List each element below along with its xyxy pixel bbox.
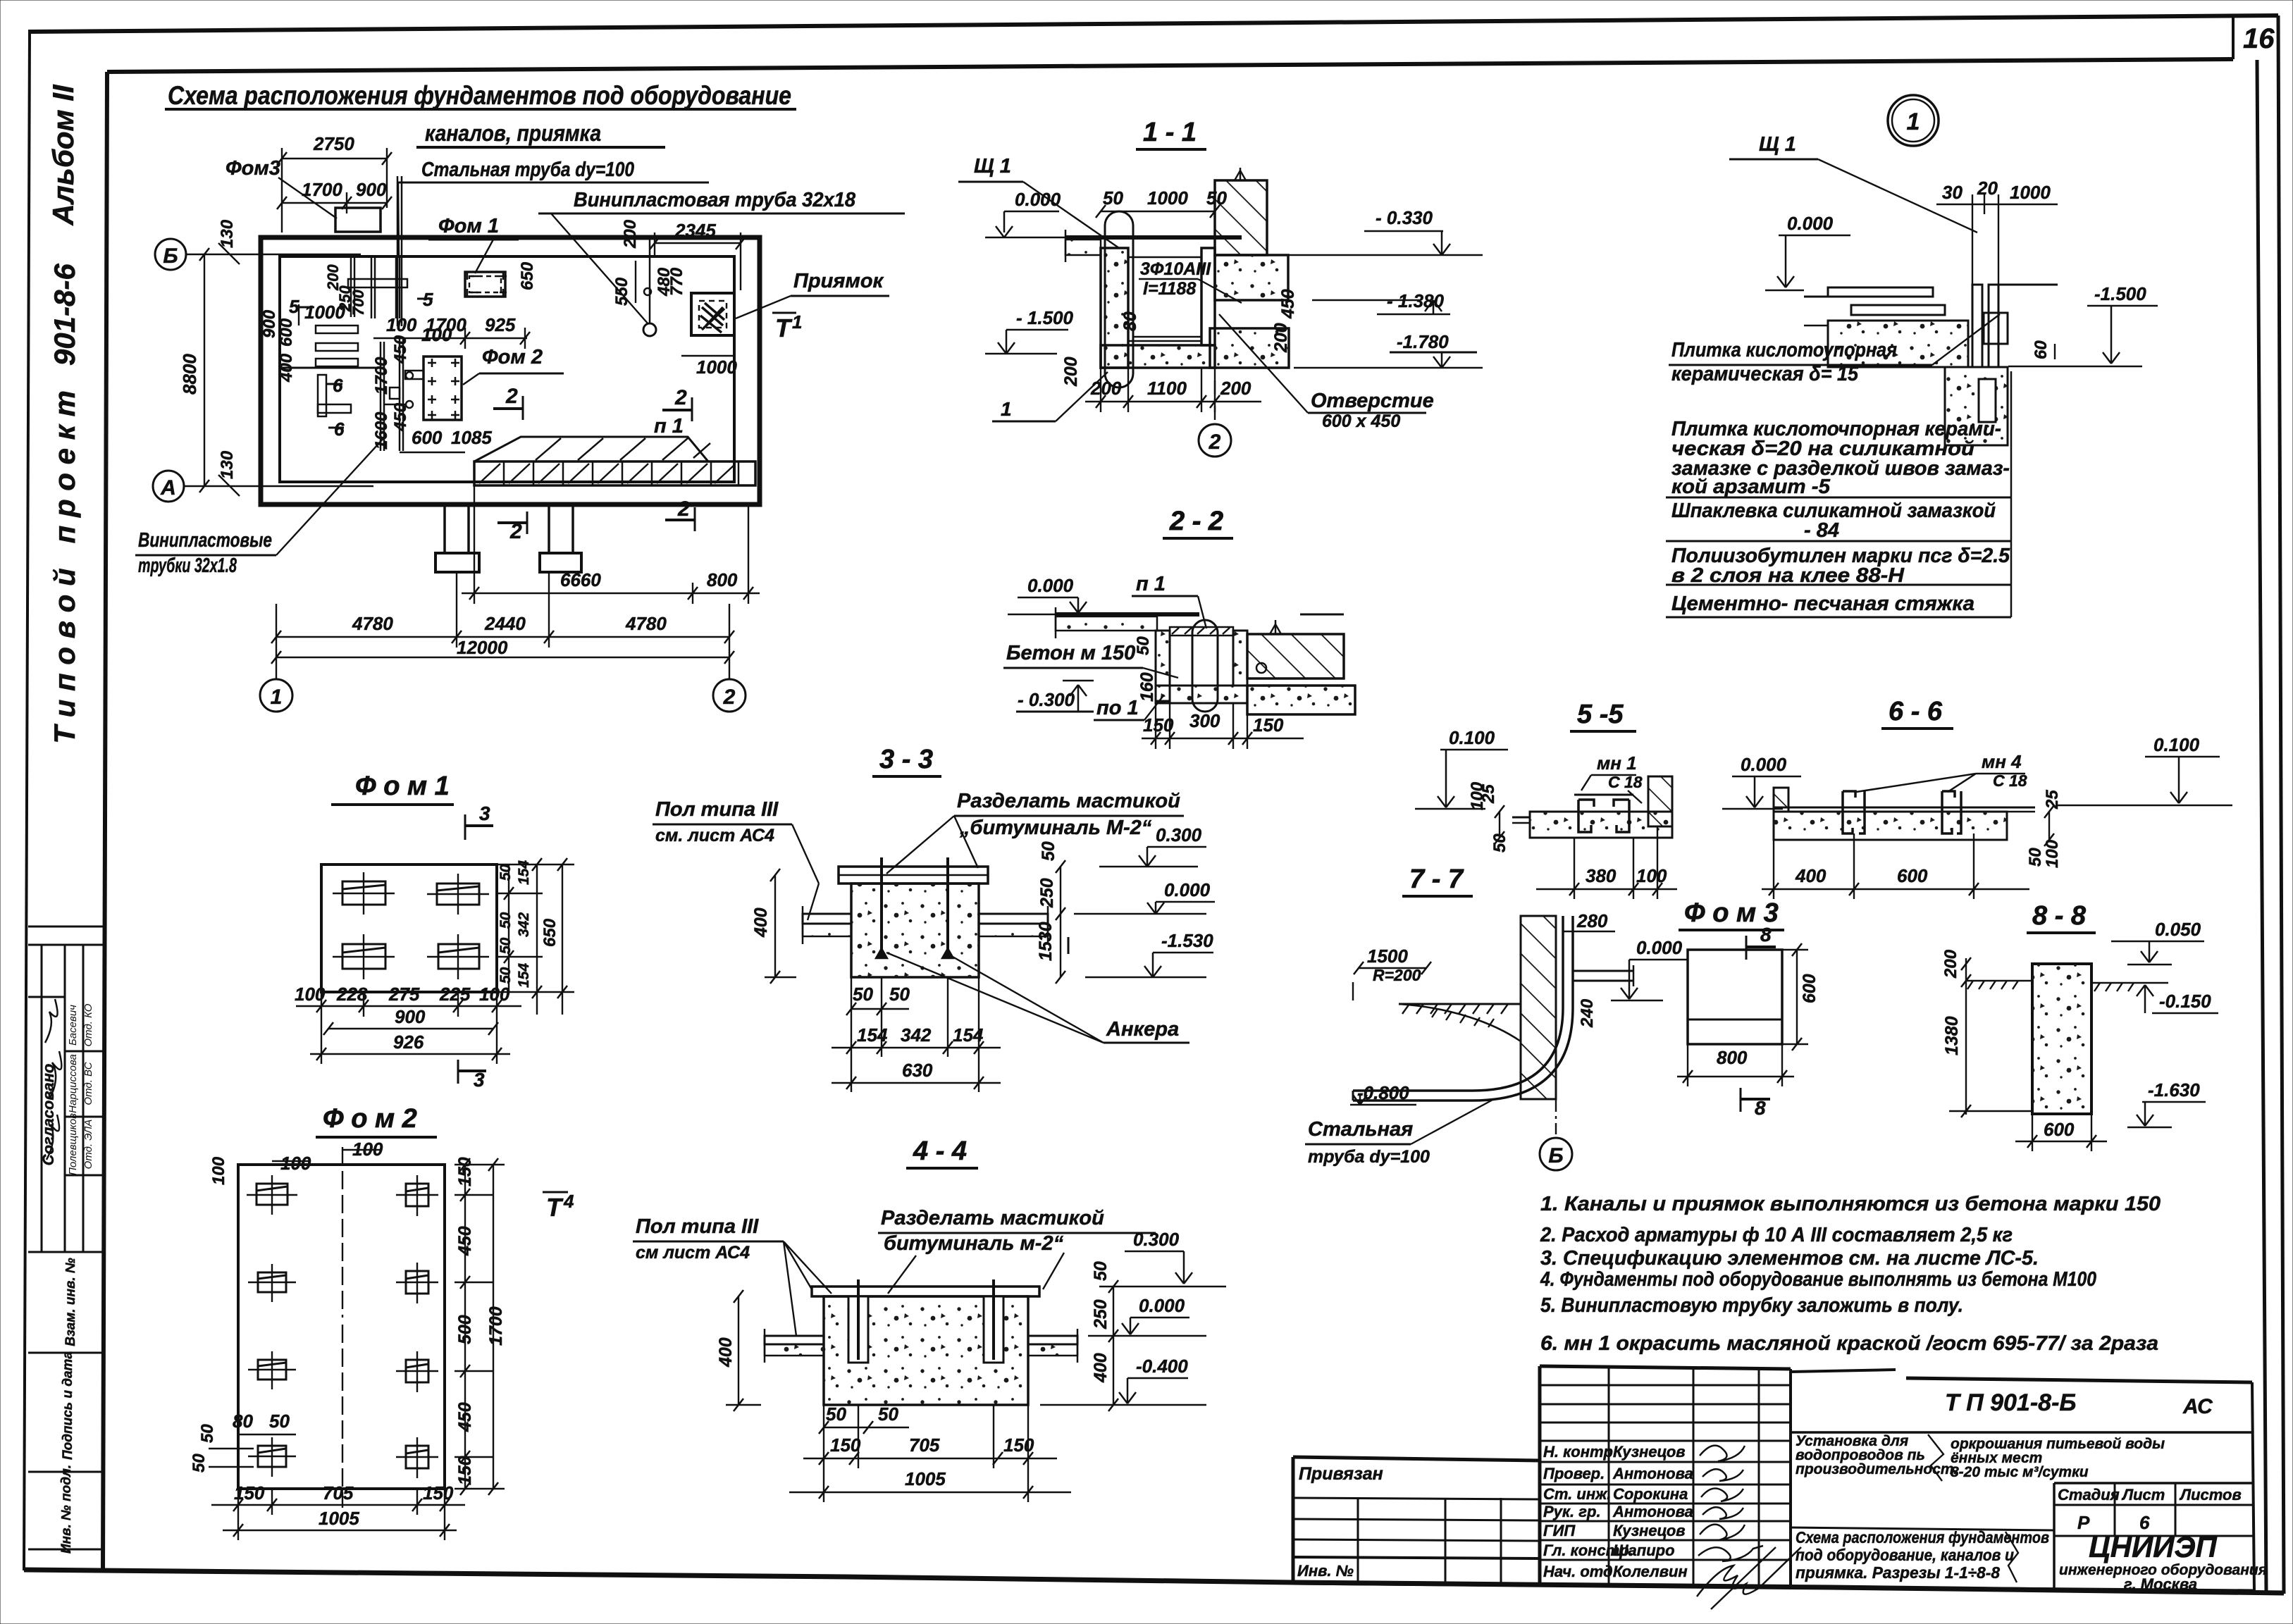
svg-text:700: 700	[350, 290, 367, 316]
pit pryamok	[691, 293, 734, 335]
svg-text:Т и п о в о й п р о е к т: Т и п о в о й п р о е к т 901-8-6	[48, 264, 81, 744]
floor slab left	[1065, 235, 1242, 240]
svg-text:6 - 6: 6 - 6	[1889, 697, 1943, 726]
svg-text:1: 1	[792, 311, 802, 333]
slope line	[1399, 1004, 1521, 1041]
svg-text:мн 1: мн 1	[1597, 752, 1637, 774]
fom1 rect in plan	[465, 272, 505, 297]
ground left	[1399, 1003, 1521, 1005]
svg-text:-1.530: -1.530	[1161, 930, 1213, 951]
svg-text:200: 200	[1271, 323, 1291, 353]
right part	[1791, 1370, 1896, 1372]
svg-text:1700: 1700	[486, 1306, 506, 1346]
svg-text:8-20 тыс м³/сутки: 8-20 тыс м³/сутки	[1951, 1464, 2089, 1480]
SECTION 1-1	[958, 118, 1483, 457]
svg-text:- 84: - 84	[1804, 519, 1839, 542]
floor slab left	[765, 1336, 824, 1344]
svg-text:Стальная труба dy=100: Стальная труба dy=100	[421, 159, 634, 181]
floor plates	[1828, 287, 1933, 297]
Sch1 capsule	[1105, 211, 1133, 388]
floor slab left	[803, 914, 851, 924]
svg-text:600: 600	[2044, 1119, 2075, 1140]
svg-text:Кузнецов: Кузнецов	[1613, 1522, 1686, 1539]
steel pipe in wall	[397, 176, 399, 326]
SECTION 6-6	[1722, 697, 2232, 899]
svg-text:Фом 2: Фом 2	[482, 346, 543, 368]
bottom dims 200 1100 200	[1085, 401, 1261, 402]
svg-text:1000: 1000	[1147, 187, 1188, 209]
svg-text:Отверстие: Отверстие	[1311, 390, 1434, 412]
svg-text:50: 50	[2026, 848, 2045, 867]
svg-text:3. Спецификацию элементов: 3. Спецификацию элементов см. на листе Л…	[1540, 1247, 2039, 1270]
bottom dim chain	[296, 1005, 521, 1007]
svg-text:1530: 1530	[1036, 922, 1056, 961]
channels	[1843, 791, 1865, 833]
channel p1 flap	[474, 437, 708, 461]
main title	[165, 81, 796, 147]
svg-text:1. Каналы и приямок вып: 1. Каналы и приямок выполняются из бетон…	[1540, 1193, 2161, 1215]
svg-text:1: 1	[271, 686, 283, 709]
svg-text:Инв. №: Инв. №	[1297, 1562, 1354, 1580]
svg-text:200: 200	[621, 219, 640, 249]
hatch left end	[1774, 788, 1788, 812]
svg-text:150: 150	[830, 1434, 861, 1456]
svg-text:Колелвин: Колелвин	[1613, 1563, 1688, 1580]
svg-text:0.000: 0.000	[1636, 937, 1683, 958]
svg-text:130: 130	[218, 219, 237, 248]
svg-text:400: 400	[751, 907, 771, 938]
SECTION 8-8	[1941, 901, 2218, 1151]
dim 12000	[276, 657, 729, 658]
svg-text:Анкера: Анкера	[1106, 1018, 1179, 1041]
project name	[1791, 1527, 2054, 1530]
svg-text:280: 280	[1576, 910, 1608, 931]
svg-text:АС: АС	[2182, 1395, 2213, 1418]
svg-text:п 1: п 1	[654, 415, 684, 438]
floor slab right	[979, 914, 1048, 924]
anchors right col	[396, 1175, 438, 1478]
svg-text:Шапиро: Шапиро	[1613, 1542, 1675, 1559]
dims 150 300 150	[1142, 738, 1304, 739]
plate rect	[321, 864, 497, 992]
svg-text:- 0.330: - 0.330	[1376, 207, 1433, 228]
svg-text:5. Винипластовую трубку: 5. Винипластовую трубку заложить в полу.	[1540, 1294, 1963, 1317]
svg-text:Стадия: Стадия	[2058, 1486, 2120, 1504]
vent pipe circle	[649, 237, 651, 324]
svg-text:50: 50	[878, 1403, 898, 1425]
svg-text:1085: 1085	[451, 427, 492, 448]
svg-text:50: 50	[497, 937, 514, 954]
svg-text:342: 342	[516, 912, 532, 937]
svg-text:342: 342	[901, 1024, 932, 1046]
svg-text:Сорокина: Сорокина	[1613, 1485, 1688, 1503]
horizontal line across room	[280, 367, 384, 369]
svg-text:0.300: 0.300	[1133, 1229, 1180, 1250]
svg-text:2 - 2: 2 - 2	[1169, 507, 1223, 536]
svg-text:160: 160	[1137, 672, 1157, 702]
svg-text:5 -5: 5 -5	[1577, 700, 1624, 729]
svg-text:по 1: по 1	[1096, 697, 1139, 719]
svg-text:7 - 7: 7 - 7	[1409, 864, 1464, 894]
svg-text:200: 200	[1941, 949, 1960, 979]
FOM 3 detail	[1677, 898, 1819, 1119]
interior top-left cluster	[350, 256, 352, 317]
svg-text:С 18: С 18	[1993, 771, 2027, 790]
svg-text:Согласовано: Согласовано	[39, 1064, 57, 1166]
svg-text:600: 600	[412, 427, 443, 448]
svg-text:50: 50	[497, 864, 514, 881]
svg-text:1380: 1380	[1942, 1016, 1962, 1055]
SECTION 7-7	[1305, 864, 1687, 1170]
svg-text:50: 50	[1134, 636, 1153, 655]
svg-text:Отд. ЭЛА: Отд. ЭЛА	[82, 1120, 94, 1170]
svg-text:Отд. ВС: Отд. ВС	[82, 1062, 94, 1105]
svg-text:600: 600	[277, 318, 296, 347]
dim 2345	[655, 242, 741, 244]
svg-text:550: 550	[612, 277, 631, 306]
svg-text:Н. контр.: Н. контр.	[1543, 1443, 1617, 1461]
bottom dims	[1762, 888, 2029, 890]
fom2 rect	[424, 357, 462, 420]
svg-text:Винипластовая труба 32х18: Винипластовая труба 32х18	[574, 189, 856, 211]
svg-text:300: 300	[1189, 710, 1220, 731]
svg-text:- 1.500: - 1.500	[1016, 307, 1073, 328]
svg-text:2345: 2345	[674, 220, 716, 241]
building inner wall	[280, 256, 734, 482]
slab	[1530, 812, 1672, 838]
axis circle 1	[260, 679, 292, 712]
svg-text:2: 2	[723, 686, 736, 709]
svg-text:4: 4	[563, 1191, 574, 1212]
axis circle 2	[713, 679, 746, 712]
svg-text:в 2 слоя на клее 88-: в 2 слоя на клее 88-Н	[1671, 564, 1905, 587]
SECTION 5-5	[1415, 700, 1677, 899]
svg-text:Ст. инж.: Ст. инж.	[1543, 1485, 1611, 1503]
svg-text:Т П 901-8-Б: Т П 901-8-Б	[1945, 1389, 2076, 1416]
SECTION 2-2	[1163, 507, 1233, 538]
svg-text:- 0.300: - 0.300	[1018, 689, 1075, 710]
svg-text:600: 600	[1800, 974, 1819, 1003]
dims	[1796, 950, 1798, 1044]
svg-text:0.000: 0.000	[1741, 754, 1787, 775]
fom3 rectangle	[335, 208, 381, 232]
svg-text:500: 500	[455, 1315, 475, 1344]
svg-text:0.100: 0.100	[1449, 727, 1495, 748]
svg-text:Разделать мастикой: Разделать мастикой	[957, 790, 1180, 812]
PLAN	[135, 133, 905, 712]
lid capsule	[1192, 620, 1218, 712]
svg-text:-1.500: -1.500	[2094, 283, 2146, 304]
svg-text:1 - 1: 1 - 1	[1143, 118, 1197, 147]
channel lining	[1128, 248, 1201, 341]
bolt slots	[848, 1296, 868, 1363]
svg-text:50: 50	[497, 967, 514, 984]
svg-text:2: 2	[677, 497, 690, 521]
top plate	[812, 1287, 1039, 1296]
dim 2750	[282, 158, 387, 159]
wall below	[1945, 367, 2008, 445]
svg-text:400: 400	[1795, 865, 1827, 886]
axis line B	[186, 254, 361, 255]
T element	[318, 375, 326, 416]
svg-text:60: 60	[2032, 340, 2051, 359]
svg-text:Фом3: Фом3	[225, 157, 280, 180]
svg-text:Фом 1: Фом 1	[438, 215, 499, 237]
svg-text:20: 20	[1977, 178, 1998, 199]
svg-text:0.000: 0.000	[1027, 575, 1074, 596]
svg-text:450: 450	[391, 402, 410, 432]
svg-text:Басевич: Басевич	[67, 1005, 79, 1046]
svg-text:2: 2	[674, 386, 687, 409]
svg-text:Т: Т	[775, 314, 793, 342]
slab	[1774, 812, 2007, 840]
svg-text:900: 900	[356, 179, 387, 200]
svg-text:380: 380	[1586, 865, 1617, 886]
left rotated stamp table	[28, 926, 103, 1554]
dim 400 left	[774, 875, 776, 977]
svg-text:925: 925	[485, 314, 516, 335]
svg-text:0.000: 0.000	[1164, 879, 1211, 900]
channel body	[1156, 631, 1170, 701]
right dim chain	[464, 1165, 466, 1489]
svg-text:600: 600	[1897, 865, 1928, 886]
vinyl tube channels	[380, 342, 382, 451]
svg-text:900: 900	[395, 1006, 426, 1027]
foundation leg 1	[443, 504, 446, 553]
svg-text:50: 50	[497, 912, 514, 929]
interior bars left	[316, 326, 358, 333]
svg-text:2440: 2440	[484, 613, 526, 634]
hatched block	[1648, 776, 1672, 826]
svg-text:1000: 1000	[304, 302, 345, 323]
right vertical dim chain	[1060, 867, 1061, 977]
svg-text:4. Фундаменты под оборудо: 4. Фундаменты под оборудование выполнять…	[1540, 1268, 2096, 1291]
svg-text:Полевщиков: Полевщиков	[67, 1113, 79, 1175]
svg-text:1000: 1000	[2010, 182, 2051, 203]
svg-text:0.000: 0.000	[1015, 189, 1061, 210]
svg-text:Кузнецов: Кузнецов	[1613, 1443, 1686, 1461]
lower step	[1210, 328, 1289, 368]
svg-text:R=200: R=200	[1373, 966, 1421, 984]
svg-text:ЦНИИЭП: ЦНИИЭП	[2089, 1530, 2218, 1563]
svg-text:3: 3	[479, 802, 490, 824]
svg-text:50: 50	[269, 1411, 290, 1432]
svg-text:100: 100	[479, 984, 510, 1005]
svg-text:Т: Т	[546, 1193, 564, 1222]
svg-text:битуминаль м-2“: битуминаль м-2“	[884, 1232, 1064, 1255]
svg-text:Ф о м 2: Ф о м 2	[323, 1104, 417, 1134]
svg-text:3Ф10АIII: 3Ф10АIII	[1140, 259, 1211, 279]
svg-text:450: 450	[455, 1402, 475, 1432]
dimension slash ticks	[199, 152, 2096, 1537]
FOM 2 detail	[190, 1104, 574, 1540]
svg-text:Стальная: Стальная	[1308, 1118, 1413, 1141]
svg-text:см лист АС4: см лист АС4	[636, 1243, 750, 1263]
svg-text:Б: Б	[1548, 1144, 1563, 1167]
axis circle B	[1555, 1099, 1557, 1134]
channel bottom slab	[1101, 345, 1215, 368]
svg-text:Бетон м 150: Бетон м 150	[1006, 642, 1135, 664]
svg-text:16: 16	[2243, 23, 2275, 54]
concrete block	[851, 884, 979, 977]
bottom dims	[211, 1504, 465, 1506]
svg-text:Альбом II: Альбом II	[47, 84, 80, 225]
axis line A	[184, 485, 373, 487]
svg-text:6: 6	[334, 419, 345, 440]
svg-text:приямка. Разрезы 1-1÷8-8: приямка. Разрезы 1-1÷8-8	[1796, 1563, 2000, 1582]
svg-text:200: 200	[1061, 357, 1081, 387]
svg-text:кой арзамит -5: кой арзамит -5	[1671, 476, 1831, 498]
svg-text:1005: 1005	[319, 1508, 359, 1529]
dim 1700 900	[282, 202, 387, 204]
svg-text:Антонова: Антонова	[1612, 1503, 1693, 1520]
svg-text:8: 8	[1760, 924, 1772, 946]
pipe horiz right	[1573, 970, 1633, 972]
svg-text:8800: 8800	[179, 354, 200, 395]
svg-text:-1.630: -1.630	[2148, 1079, 2200, 1101]
svg-text:250: 250	[1091, 1299, 1111, 1329]
svg-text:1500: 1500	[1367, 946, 1408, 967]
svg-text:4780: 4780	[352, 613, 393, 634]
anchor plates	[333, 872, 489, 979]
DETAIL 1 floor layers	[1666, 95, 2158, 617]
svg-text:3 - 3: 3 - 3	[879, 745, 933, 774]
svg-text:Нарциссова: Нарциссова	[67, 1054, 79, 1113]
svg-text:150: 150	[455, 1157, 475, 1186]
wall plates	[1972, 285, 1982, 367]
signatures	[1697, 1446, 1801, 1609]
svg-text:Щ 1: Щ 1	[974, 155, 1011, 178]
svg-text:30: 30	[1942, 182, 1963, 203]
brick wall right	[1247, 634, 1344, 678]
svg-text:1700: 1700	[302, 179, 342, 200]
left sub-table	[1293, 1457, 1540, 1461]
channel profile	[1578, 800, 1629, 832]
channel right wall	[1201, 248, 1215, 345]
svg-text:926: 926	[393, 1031, 424, 1053]
svg-text:4780: 4780	[625, 613, 667, 634]
svg-text:50: 50	[1206, 187, 1227, 209]
svg-text:Приямок: Приямок	[793, 270, 884, 292]
svg-text:1100: 1100	[1147, 378, 1187, 399]
svg-text:650: 650	[540, 918, 560, 947]
svg-text:l=1188: l=1188	[1143, 279, 1196, 299]
wall hatched	[1521, 916, 1556, 1099]
svg-text:керамическая δ= 15: керамическая δ= 15	[1671, 363, 1859, 385]
svg-text:Схема расположения фундамент: Схема расположения фундаментов	[1796, 1528, 2049, 1546]
svg-text:2: 2	[505, 385, 518, 408]
svg-text:900: 900	[260, 309, 279, 338]
svg-text:см. лист АС4: см. лист АС4	[655, 826, 774, 845]
svg-text:600 х 450: 600 х 450	[1322, 411, 1400, 431]
svg-text:770: 770	[667, 267, 686, 296]
svg-text:150: 150	[1253, 714, 1284, 736]
svg-text:1: 1	[1907, 109, 1920, 135]
svg-text:25: 25	[1479, 784, 1498, 804]
concrete block	[824, 1296, 1028, 1405]
svg-text:228: 228	[336, 984, 368, 1005]
svg-text:8 - 8: 8 - 8	[2032, 901, 2087, 931]
wall slab	[1247, 686, 1355, 714]
right vertical dims	[1113, 1287, 1114, 1405]
svg-text:400: 400	[716, 1337, 736, 1368]
svg-text:под оборудование, каналов и: под оборудование, каналов и	[1796, 1546, 2014, 1564]
svg-text:2: 2	[1209, 430, 1221, 454]
svg-text:400: 400	[1091, 1353, 1111, 1383]
svg-text:12000: 12000	[457, 637, 508, 658]
svg-text:50: 50	[190, 1453, 209, 1473]
svg-text:Нач. отд.: Нач. отд.	[1543, 1563, 1617, 1580]
svg-text:Отд. КО: Отд. КО	[82, 1003, 94, 1046]
vertical dim 8800	[204, 254, 205, 486]
svg-text:6660: 6660	[560, 569, 601, 590]
svg-text:0.000: 0.000	[1139, 1295, 1185, 1316]
svg-text:150: 150	[1003, 1434, 1034, 1456]
svg-text:Пол типа III: Пол типа III	[636, 1215, 759, 1238]
svg-text:0.300: 0.300	[1156, 824, 1202, 845]
svg-text:Плитка кислотоупорная: Плитка кислотоупорная	[1671, 339, 1897, 361]
svg-text:150: 150	[455, 1456, 475, 1485]
svg-text:Антонова: Антонова	[1612, 1465, 1693, 1482]
rect	[1688, 950, 1782, 1044]
svg-text:240: 240	[1578, 998, 1597, 1028]
svg-text:50: 50	[853, 984, 873, 1005]
svg-text:225: 225	[439, 984, 471, 1005]
svg-text:100: 100	[421, 324, 452, 345]
svg-text:„битуминаль М-2“: „битуминаль М-2“	[959, 817, 1152, 839]
svg-text:100: 100	[280, 1153, 311, 1174]
dim 100 1700 925	[373, 337, 527, 339]
floor slab	[1828, 321, 1968, 367]
svg-text:Винипластовые: Винипластовые	[138, 529, 272, 552]
svg-text:1600: 1600	[372, 411, 391, 450]
top plate	[839, 867, 988, 884]
axis circle A	[153, 471, 184, 502]
SECTION 2-2	[1003, 507, 1355, 749]
svg-text:0.100: 0.100	[2153, 734, 2200, 755]
svg-text:1000: 1000	[696, 357, 737, 378]
svg-text:450: 450	[455, 1226, 475, 1256]
svg-text:130: 130	[218, 450, 237, 479]
svg-text:154: 154	[857, 1024, 888, 1046]
svg-text:250: 250	[1037, 878, 1057, 908]
channel p1 lid	[474, 461, 755, 485]
svg-text:450: 450	[391, 335, 410, 364]
svg-text:-1.780: -1.780	[1397, 331, 1449, 352]
svg-text:Пол типа III: Пол типа III	[655, 798, 779, 821]
notes	[1540, 1193, 2161, 1355]
svg-text:трубки 32х1.8: трубки 32х1.8	[138, 554, 237, 577]
floor slab right	[1028, 1336, 1077, 1344]
svg-text:1700: 1700	[372, 357, 391, 395]
stadia list listov	[2054, 1482, 2254, 1484]
floor slab left	[1056, 612, 1199, 616]
svg-text:Разделать мастикой: Разделать мастикой	[881, 1207, 1104, 1229]
svg-text:Привязан: Привязан	[1299, 1464, 1383, 1484]
svg-text:100: 100	[209, 1156, 228, 1185]
bottom dims	[1536, 888, 1677, 890]
svg-text:ГИП: ГИП	[1543, 1522, 1576, 1539]
svg-text:100: 100	[386, 314, 417, 335]
svg-text:Инв. № подл.: Инв. № подл.	[59, 1465, 74, 1554]
svg-text:5: 5	[289, 296, 299, 317]
svg-text:154: 154	[516, 963, 532, 988]
svg-text:Щ 1: Щ 1	[1759, 133, 1796, 156]
svg-text:-0.400: -0.400	[1136, 1356, 1188, 1377]
axis circle 2 below	[1214, 380, 1216, 424]
svg-text:650: 650	[518, 261, 537, 290]
central table	[1540, 1366, 1791, 1369]
